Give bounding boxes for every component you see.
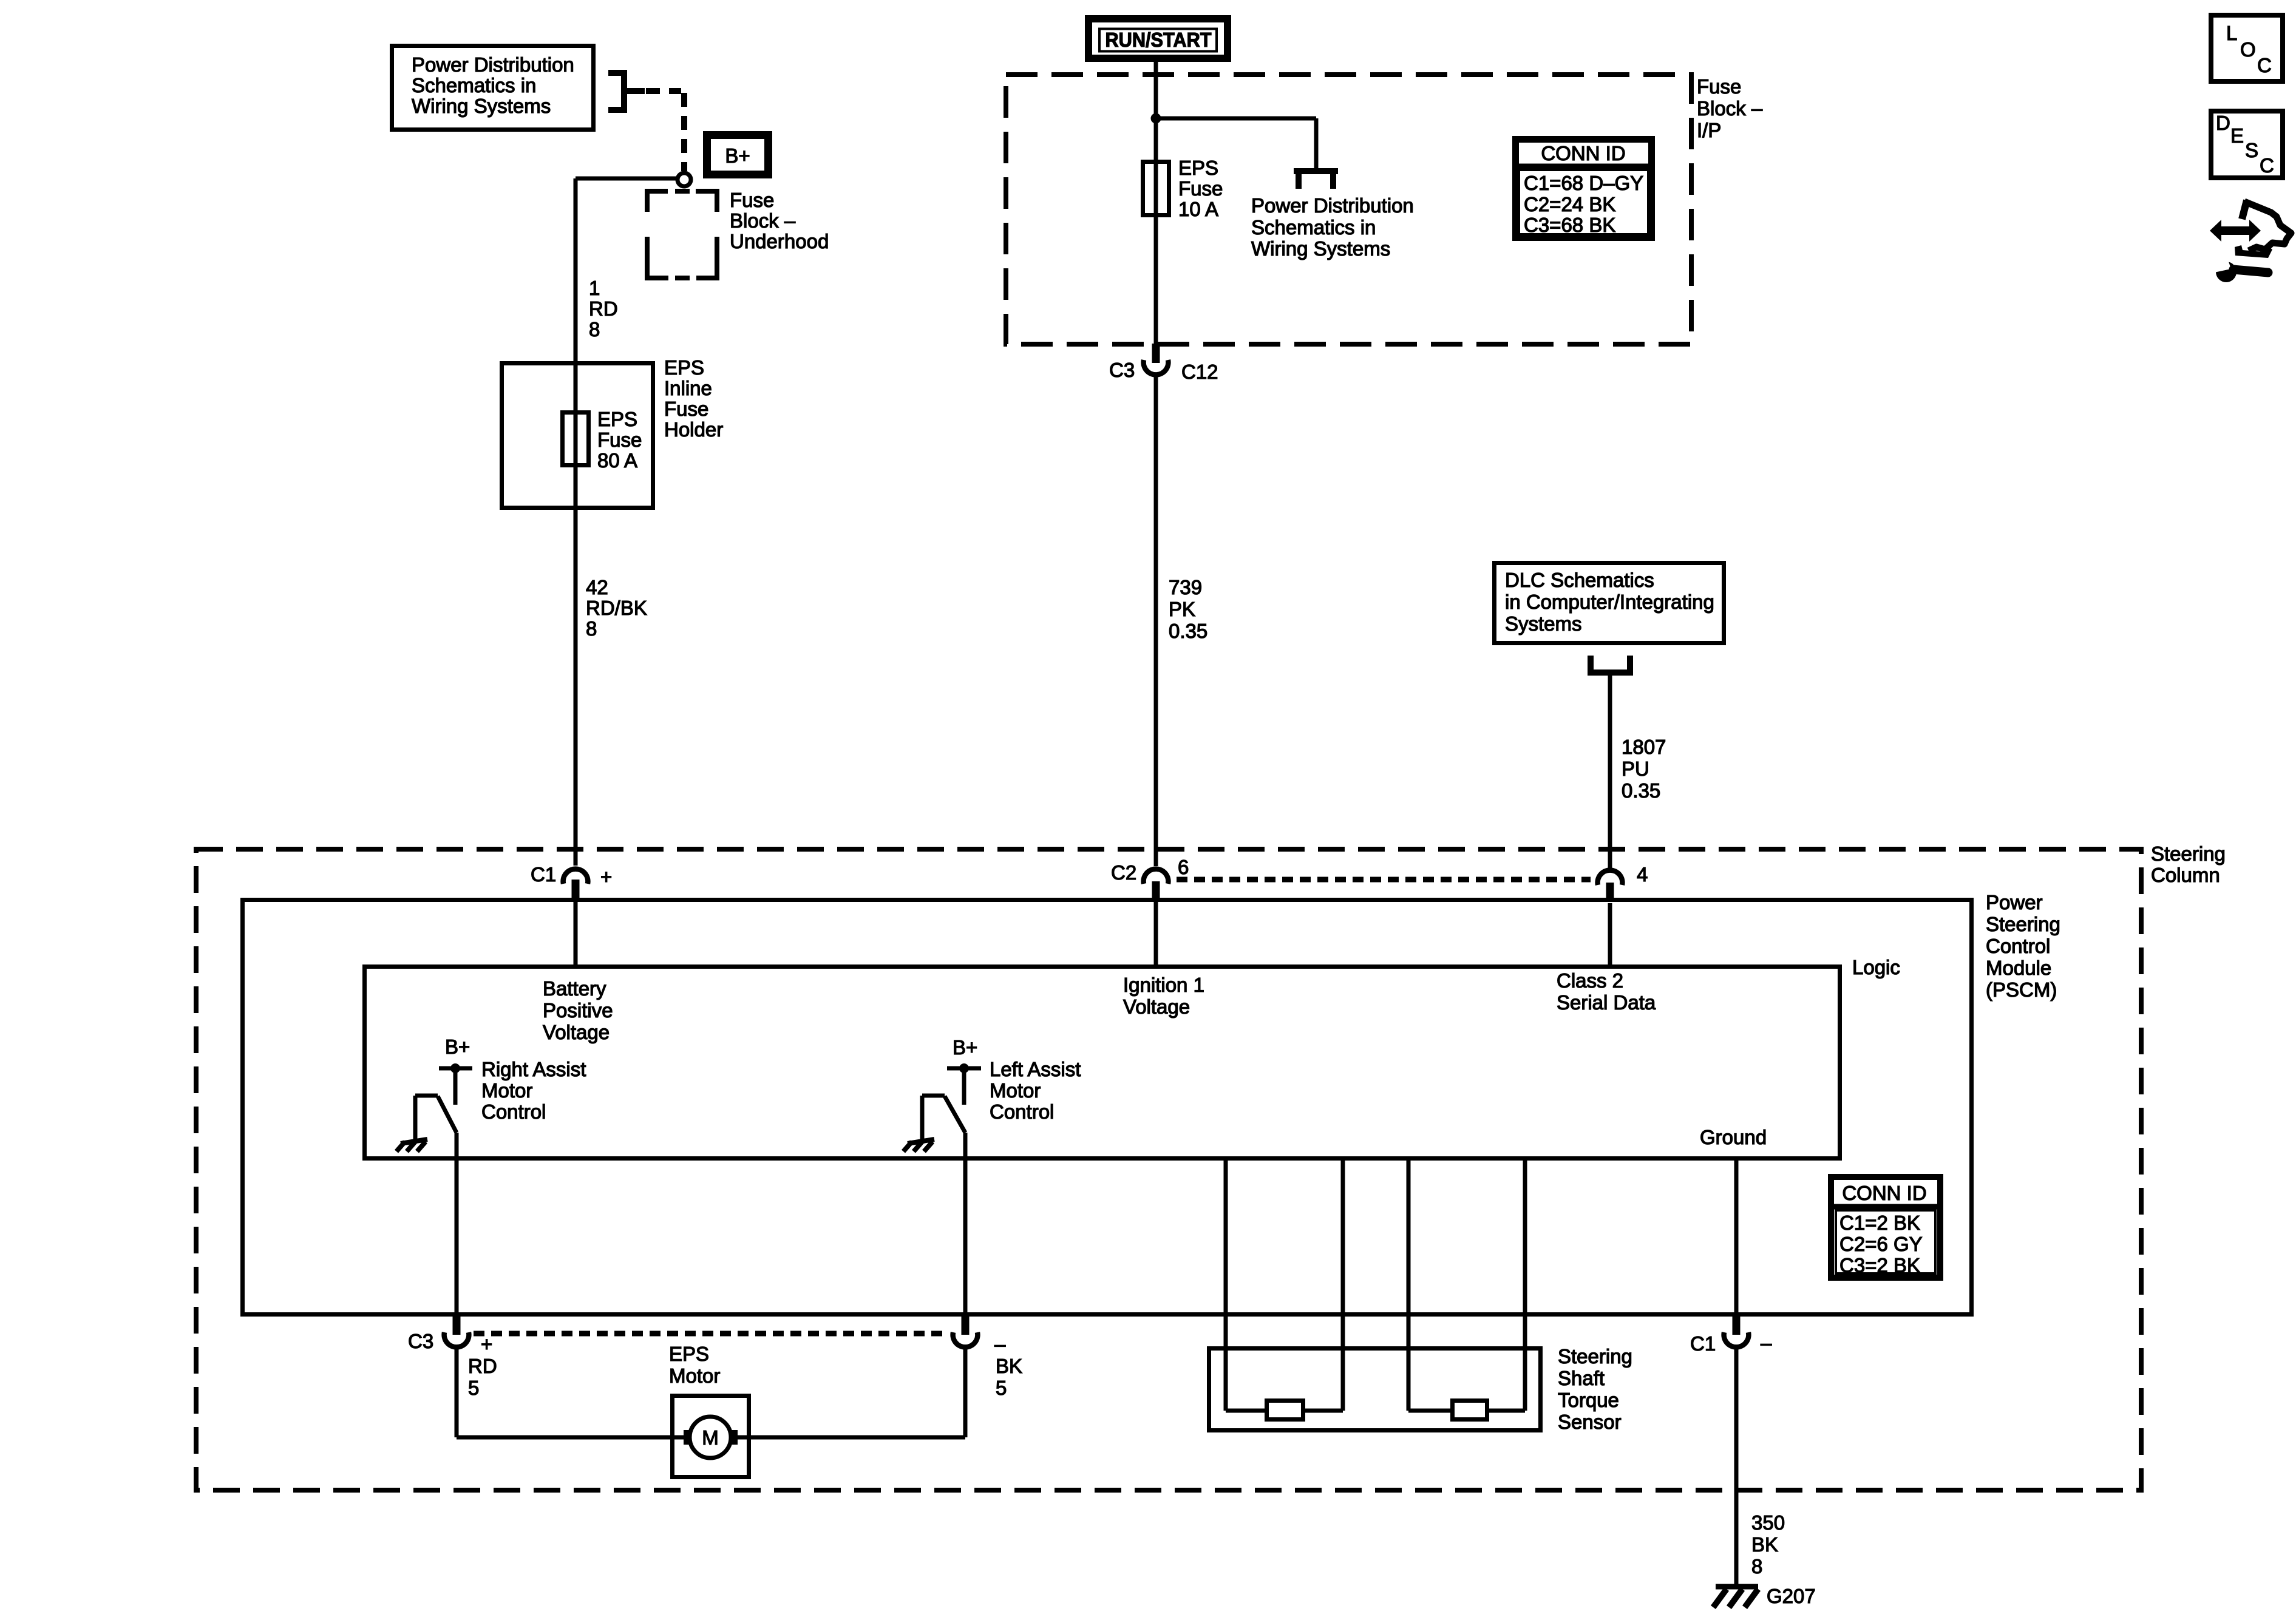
svg-text:Schematics in: Schematics in [1251, 216, 1376, 239]
svg-text:Battery: Battery [543, 977, 606, 1000]
svg-text:BK: BK [996, 1355, 1022, 1377]
off-page connector bracket (battery feed) [608, 70, 645, 113]
svg-text:1: 1 [589, 277, 600, 299]
branch wire to power distribution reference [1156, 118, 1316, 170]
svg-text:Ground: Ground [1700, 1126, 1767, 1148]
svg-text:DLC Schematics: DLC Schematics [1505, 569, 1654, 591]
DESC legend box [2211, 111, 2283, 178]
svg-text:Motor: Motor [990, 1079, 1041, 1102]
label: EPS Inline Fuse Holder [664, 356, 723, 441]
wire: left assist output [963, 1133, 968, 1314]
svg-text:Systems: Systems [1505, 612, 1582, 635]
svg-text:Block –: Block – [730, 209, 796, 232]
wire label RD 5 [468, 1355, 497, 1399]
svg-text:Underhood: Underhood [730, 230, 829, 253]
svg-text:0.35: 0.35 [1622, 779, 1660, 802]
svg-text:Wiring Systems: Wiring Systems [412, 95, 551, 117]
wire 350 BK 8 [1734, 1348, 1739, 1585]
svg-text:+: + [481, 1333, 492, 1355]
svg-text:RD/BK: RD/BK [586, 597, 647, 619]
service icon: double arrow, hand and wrench [2210, 200, 2291, 282]
wire: motor positive lead [457, 1348, 688, 1437]
svg-text:CONN ID: CONN ID [1541, 142, 1625, 164]
svg-text:C1: C1 [531, 863, 556, 886]
svg-text:EPS: EPS [597, 408, 637, 430]
wire: battery positive feed to EPS fuse [576, 178, 678, 866]
svg-text:EPS: EPS [669, 1343, 709, 1365]
Fuse Block Underhood dashed outline [647, 191, 717, 278]
svg-text:C2: C2 [1111, 861, 1136, 884]
svg-text:–: – [994, 1333, 1006, 1355]
svg-text:0.35: 0.35 [1169, 620, 1207, 642]
wire label 1 RD 8 [589, 277, 618, 341]
B+ terminal box [707, 135, 769, 175]
svg-text:C2=6 GY: C2=6 GY [1839, 1233, 1923, 1255]
svg-text:Voltage: Voltage [1123, 995, 1190, 1018]
wire 739 PK 0.35 [1154, 375, 1158, 866]
wire: ground from logic [1734, 1158, 1739, 1314]
junction dot [1151, 114, 1161, 124]
svg-text:B+: B+ [725, 144, 750, 167]
CONN ID table (PSCM) [1828, 1177, 1943, 1278]
RUN/START ignition switch box [1089, 19, 1228, 58]
svg-text:739: 739 [1169, 576, 1202, 598]
svg-text:Column: Column [2151, 864, 2220, 886]
svg-text:Ignition 1: Ignition 1 [1123, 974, 1204, 996]
sensor wire 2 [1303, 1158, 1343, 1411]
svg-text:C1=2 BK: C1=2 BK [1839, 1212, 1920, 1234]
LOC legend box [2211, 15, 2283, 81]
wire label 739 PK 0.35 [1169, 576, 1207, 642]
svg-text:6: 6 [1178, 856, 1189, 878]
reference box: Power Distribution Schematics in Wiring Systems (battery) [392, 46, 594, 130]
svg-text:O: O [2240, 38, 2256, 61]
svg-text:I/P: I/P [1697, 119, 1721, 141]
in-line connector C2 / 6 [1111, 856, 1189, 901]
in-line connector C3 / C12 [1109, 344, 1218, 383]
sensor wire 1 [1226, 1158, 1266, 1411]
svg-text:E: E [2230, 124, 2244, 147]
svg-text:Class 2: Class 2 [1557, 969, 1623, 992]
svg-text:G207: G207 [1767, 1585, 1816, 1607]
chassis ground (right assist) [396, 1139, 427, 1151]
chassis ground (left assist) [903, 1139, 934, 1151]
Steering Shaft Torque Sensor box [1209, 1345, 1632, 1433]
svg-text:in Computer/Integrating: in Computer/Integrating [1505, 591, 1714, 613]
svg-text:Positive: Positive [543, 999, 613, 1022]
svg-text:Power: Power [1986, 891, 2043, 914]
svg-text:C: C [2260, 154, 2274, 177]
in-line connector C3 / + (motor feed) [408, 1316, 492, 1355]
svg-text:Block –: Block – [1697, 97, 1763, 120]
wire: right assist output [455, 1133, 459, 1314]
svg-text:8: 8 [1751, 1555, 1762, 1578]
svg-text:Power Distribution: Power Distribution [1251, 194, 1414, 217]
wire: motor negative lead [733, 1348, 965, 1437]
svg-text:EPS: EPS [664, 356, 704, 379]
label: Left Assist Motor Control [990, 1058, 1081, 1123]
svg-text:1807: 1807 [1622, 736, 1666, 758]
svg-text:RD: RD [589, 297, 618, 320]
svg-text:Fuse: Fuse [664, 398, 708, 420]
svg-text:Control: Control [481, 1100, 546, 1123]
svg-text:Fuse: Fuse [1178, 177, 1223, 200]
CONN ID table (fuse block I/P) [1512, 140, 1655, 238]
wire: battery into logic [574, 901, 578, 966]
svg-text:EPS: EPS [1178, 157, 1218, 179]
svg-text:Control: Control [1986, 935, 2050, 957]
svg-text:+: + [600, 866, 612, 888]
ground G207 [1713, 1585, 1816, 1607]
resistor (sensor element 2) [1453, 1401, 1487, 1420]
value label: EPS Fuse 10 A [1178, 157, 1223, 220]
svg-text:5: 5 [468, 1377, 479, 1399]
label: Right Assist Motor Control [481, 1058, 586, 1123]
off-page connector bracket (power distribution) [1294, 171, 1338, 189]
sensor wire 3 [1408, 1158, 1452, 1411]
pin label: Ignition 1 Voltage [1123, 974, 1204, 1018]
in-line connector minus (motor return) [953, 1316, 1006, 1355]
svg-text:C2=24 BK: C2=24 BK [1524, 193, 1615, 215]
svg-text:B+: B+ [953, 1036, 977, 1059]
fuse: EPS Fuse 80 A [563, 413, 589, 466]
svg-text:B+: B+ [445, 1036, 470, 1058]
Fuse Block I/P dashed outline [1006, 75, 1691, 344]
sensor wire 4 [1487, 1158, 1525, 1411]
svg-text:Schematics in: Schematics in [412, 74, 536, 97]
wire: ignition 1 into logic [1154, 902, 1158, 966]
svg-text:C12: C12 [1181, 361, 1218, 383]
svg-text:Right Assist: Right Assist [481, 1058, 586, 1080]
EPS Inline Fuse Holder box [502, 364, 653, 508]
wire label BK 5 [996, 1355, 1022, 1399]
resistor (sensor element 1) [1267, 1401, 1303, 1420]
PSCM box [243, 900, 1972, 1315]
svg-text:PU: PU [1622, 758, 1649, 780]
off-page connector bracket (DLC) [1588, 656, 1633, 673]
svg-text:Wiring Systems: Wiring Systems [1251, 237, 1390, 260]
svg-text:Inline: Inline [664, 377, 712, 399]
svg-text:10 A: 10 A [1178, 198, 1218, 220]
label: Fuse Block I/P [1697, 75, 1763, 141]
Steering Column dashed outline [196, 849, 2141, 1490]
svg-text:Logic: Logic [1852, 956, 1900, 978]
wire: class 2 serial data into logic [1608, 903, 1612, 966]
svg-text:D: D [2216, 112, 2230, 134]
splice ring at B+ node [678, 173, 691, 186]
svg-text:BK: BK [1751, 1533, 1778, 1556]
svg-text:Shaft: Shaft [1558, 1367, 1605, 1389]
svg-text:350: 350 [1751, 1511, 1785, 1534]
transistor: right assist motor control driver [415, 1036, 472, 1139]
svg-text:C3: C3 [1109, 359, 1135, 381]
svg-text:Left Assist: Left Assist [990, 1058, 1081, 1080]
label: Fuse Block Underhood [730, 189, 829, 253]
svg-text:Voltage: Voltage [543, 1021, 610, 1043]
in-line connector C1 / + (battery into PSCM) [531, 863, 612, 900]
label: Power Steering Control Module (PSCM) [1986, 891, 2060, 1001]
svg-text:Control: Control [990, 1100, 1054, 1123]
svg-text:5: 5 [996, 1377, 1007, 1399]
DLC Schematics reference box [1495, 563, 1724, 643]
svg-text:Steering: Steering [2151, 842, 2226, 865]
svg-text:L: L [2226, 22, 2237, 44]
svg-text:Serial Data: Serial Data [1557, 991, 1656, 1014]
svg-text:Steering: Steering [1558, 1345, 1632, 1368]
svg-text:C1=68 D–GY: C1=68 D–GY [1524, 172, 1643, 194]
svg-text:RD: RD [468, 1355, 497, 1377]
svg-text:RUN/START: RUN/START [1106, 29, 1212, 51]
pin label: Class 2 Serial Data [1557, 969, 1656, 1014]
wire: ignition feed from RUN/START [1154, 58, 1158, 344]
svg-text:42: 42 [586, 576, 608, 598]
svg-text:–: – [1761, 1332, 1772, 1354]
svg-text:S: S [2245, 139, 2258, 161]
svg-text:Fuse: Fuse [730, 189, 774, 211]
wire label 42 RD/BK 8 [586, 576, 647, 640]
svg-text:C: C [2257, 54, 2272, 76]
wire label 350 BK 8 [1751, 1511, 1785, 1578]
fuse: EPS Fuse 10 A [1143, 162, 1169, 215]
svg-text:M: M [702, 1426, 719, 1449]
svg-text:Fuse: Fuse [1697, 75, 1741, 98]
svg-text:Motor: Motor [481, 1079, 532, 1102]
harness link dashes C3 to minus [474, 1331, 948, 1337]
svg-text:80 A: 80 A [597, 449, 637, 472]
label: Steering Column [2151, 842, 2226, 886]
svg-text:C3=68 BK: C3=68 BK [1524, 214, 1615, 236]
svg-text:Torque: Torque [1558, 1389, 1619, 1411]
svg-text:8: 8 [586, 617, 597, 640]
logic block box [365, 967, 1840, 1159]
svg-text:Motor: Motor [669, 1364, 720, 1387]
in-line connector 4 [1598, 863, 1648, 902]
svg-text:Steering: Steering [1986, 913, 2060, 935]
transistor: left assist motor control driver [922, 1036, 981, 1144]
svg-text:CONN ID: CONN ID [1842, 1182, 1926, 1204]
svg-text:4: 4 [1637, 863, 1648, 886]
svg-text:C1: C1 [1690, 1332, 1716, 1355]
value label: EPS Fuse 80 A [597, 408, 642, 472]
svg-text:(PSCM): (PSCM) [1986, 978, 2057, 1001]
pin label: Battery Positive Voltage [543, 977, 613, 1043]
svg-text:Holder: Holder [664, 418, 723, 441]
svg-text:Module: Module [1986, 957, 2051, 979]
svg-text:Fuse: Fuse [597, 429, 642, 451]
wire 1807 PU 0.35 [1608, 673, 1612, 869]
EPS Motor [669, 1343, 749, 1477]
svg-text:C3: C3 [408, 1330, 433, 1352]
svg-text:Sensor: Sensor [1558, 1411, 1622, 1433]
svg-text:8: 8 [589, 318, 600, 341]
wire label 1807 PU 0.35 [1622, 736, 1666, 802]
in-line connector C1 / minus (ground) [1690, 1316, 1772, 1355]
svg-text:Power Distribution: Power Distribution [412, 53, 574, 76]
svg-text:PK: PK [1169, 598, 1195, 620]
svg-text:C3=2 BK: C3=2 BK [1839, 1254, 1920, 1276]
dashed wire from bracket to B+ splice [646, 91, 684, 171]
label: Power Distribution Schematics reference [1251, 194, 1414, 260]
harness link dashes C2 to 4 [1177, 877, 1591, 883]
